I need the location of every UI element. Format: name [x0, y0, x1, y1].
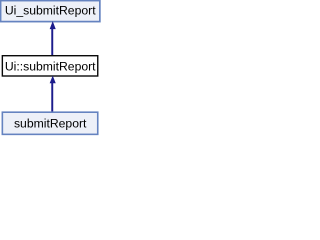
node Ui::submitReport (middle box, current): [2, 56, 97, 76]
background: [0, 0, 102, 136]
node submitReport (bottom box): [2, 112, 97, 134]
node Ui_submitReport (top box): [1, 1, 100, 22]
edge arrow: submitReport -> Ui::submitReport: [50, 76, 55, 112]
svg-text:submitReport: submitReport: [14, 116, 87, 130]
svg-text:Ui::submitReport: Ui::submitReport: [5, 60, 96, 74]
svg-text:Ui_submitReport: Ui_submitReport: [5, 4, 96, 18]
edge arrow: Ui::submitReport -> Ui_submitReport: [50, 22, 55, 56]
